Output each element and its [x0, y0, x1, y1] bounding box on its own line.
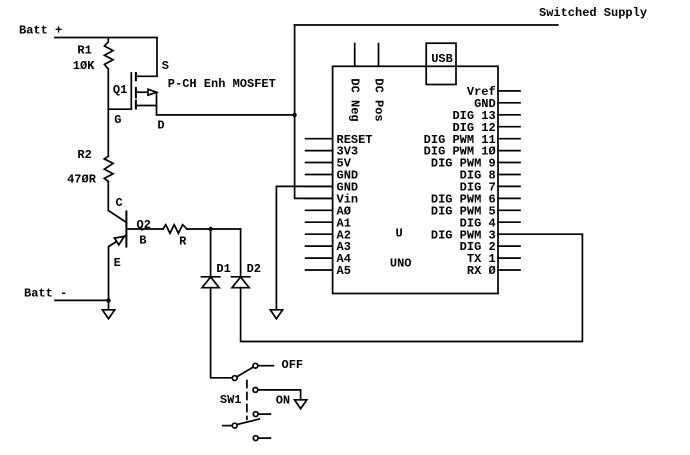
wire R1 bottom to R2 top — [107, 69, 109, 156]
switch SW1 pole2 common circle — [232, 423, 237, 428]
wire switched supply riser — [295, 25, 333, 198]
wire OFF stub — [258, 365, 274, 367]
svg-text:D1: D1 — [216, 262, 230, 276]
pin stub A2 (left) — [306, 233, 333, 235]
svg-text:RX Ø: RX Ø — [467, 264, 496, 278]
transistor Q1 bottom bar connect — [136, 105, 157, 107]
switch SW1 pole1 lever — [237, 367, 253, 377]
resistor R1 — [104, 38, 113, 70]
pin stub 5V (left) — [306, 162, 333, 164]
switch SW1 pole2 common stub — [223, 425, 233, 427]
transistor Q1 body arrow head — [148, 89, 157, 95]
pin stub DIG 12 (right) — [498, 126, 520, 128]
pin stub DIG PWM 11 (right) — [498, 138, 520, 140]
svg-text:R2: R2 — [77, 148, 91, 162]
ground symbol board GND — [270, 310, 282, 319]
pin stub RESET (left) — [306, 138, 333, 140]
arduino board outline U — [333, 66, 498, 293]
svg-text:A5: A5 — [337, 264, 351, 278]
pin stub DIG 13 (right) — [498, 114, 520, 116]
wire Batt+ horizontal — [55, 37, 157, 39]
wire ground stem Batt- — [108, 300, 110, 309]
switch SW1 pole2 throw2 circle — [253, 436, 258, 441]
diode D1 anode lead — [210, 229, 212, 277]
diode D2 cathode bar — [232, 276, 250, 278]
pin stub A3 (left) — [306, 245, 333, 247]
diode D2 anode lead — [240, 229, 242, 277]
svg-text:Batt +: Batt + — [19, 24, 62, 38]
transistor Q2 bar — [125, 212, 127, 247]
transistor Q1 gate plate — [130, 73, 132, 109]
pin stub DIG 7 (right) — [498, 185, 520, 187]
USB connector box — [426, 43, 456, 84]
wire pole2 throw1 stub — [258, 413, 270, 415]
svg-text:SW1: SW1 — [220, 393, 242, 407]
pin stub DIG PWM 5 (right) — [498, 209, 520, 211]
node R/D1 junction — [208, 227, 212, 231]
svg-text:USB: USB — [431, 52, 453, 66]
pin stub A5 (left) — [306, 269, 333, 271]
pin stub GND (left) — [306, 174, 333, 176]
diode D1 cathode bar — [202, 276, 220, 278]
pin stub A4 (left) — [306, 257, 333, 259]
pin DC Neg stub — [354, 44, 356, 67]
svg-text:Q2: Q2 — [137, 218, 151, 232]
svg-text:D2: D2 — [247, 262, 261, 276]
svg-text:1ØK: 1ØK — [73, 59, 95, 73]
switch SW1 gang dashed link — [246, 381, 248, 420]
resistor R — [163, 225, 187, 234]
ground symbol Batt- — [102, 310, 114, 319]
pin stub Vin (left) — [306, 197, 333, 199]
wire R2 bottom to collector — [107, 181, 109, 210]
svg-text:S: S — [162, 59, 169, 73]
transistor Q1 channel bar top — [135, 73, 137, 80]
svg-text:47ØR: 47ØR — [67, 173, 97, 187]
pin stub GND (left) — [306, 185, 333, 187]
svg-text:Switched Supply: Switched Supply — [539, 6, 647, 20]
wire GND pin to ground — [276, 186, 332, 309]
wire Batt- horizontal — [55, 299, 109, 301]
pin stub RX 0 (right) — [498, 269, 520, 271]
transistor Q2 emitter diagonal — [109, 235, 127, 300]
wire drain vertical — [156, 92, 158, 115]
diode D2 triangle — [232, 277, 249, 288]
ground symbol ON — [295, 400, 307, 409]
wire D2 to DIG PWM 3 — [241, 234, 583, 341]
pin stub DIG PWM 9 (right) — [498, 162, 520, 164]
switch SW1 pole2 throw1 circle — [253, 412, 258, 417]
diode D1 triangle — [202, 277, 219, 288]
svg-text:D: D — [157, 118, 164, 132]
switch SW1 OFF throw circle — [253, 363, 258, 368]
pin stub DIG 2 (right) — [498, 245, 520, 247]
pin stub A1 (left) — [306, 221, 333, 223]
svg-text:U: U — [396, 227, 403, 241]
pin stub DIG PWM 6 (right) — [498, 197, 520, 199]
pin stub DIG PWM 10 (right) — [498, 150, 520, 152]
transistor Q1 channel bar bottom — [135, 101, 137, 109]
svg-text:Batt -: Batt - — [24, 287, 67, 301]
transistor Q1 channel bar middle — [135, 88, 137, 97]
svg-text:ON: ON — [276, 394, 290, 408]
transistor Q1 body arrow line — [136, 91, 148, 93]
pin stub DIG 8 (right) — [498, 174, 520, 176]
wire drain to node — [157, 114, 295, 116]
svg-text:E: E — [114, 256, 121, 270]
pin stub 3V3 (left) — [306, 150, 333, 152]
svg-text:DC Neg: DC Neg — [348, 78, 362, 121]
wire source vertical to S — [136, 38, 157, 77]
node Batt- junction — [106, 298, 110, 302]
svg-text:G: G — [114, 113, 121, 127]
pin stub DIG 4 (right) — [498, 221, 520, 223]
resistor R2 — [104, 156, 113, 181]
svg-text:Q1: Q1 — [113, 83, 127, 97]
svg-text:P-CH Enh MOSFET: P-CH Enh MOSFET — [168, 77, 276, 91]
switch SW1 pole1 common circle — [232, 376, 237, 381]
switch SW1 ON throw circle — [253, 388, 258, 393]
transistor Q2 collector diagonal — [109, 211, 127, 223]
svg-text:C: C — [116, 196, 123, 210]
svg-text:R: R — [179, 234, 187, 248]
svg-text:UNO: UNO — [390, 256, 412, 270]
wire switched supply top — [295, 24, 558, 26]
pin stub Vref (right) — [498, 90, 520, 92]
wire R to D2 — [187, 228, 241, 230]
pin stub A0 (left) — [306, 209, 333, 211]
svg-text:B: B — [139, 233, 146, 247]
node drain junction — [292, 113, 296, 117]
pin stub GND (right) — [498, 102, 520, 104]
svg-text:OFF: OFF — [282, 358, 304, 372]
wire gate branch — [108, 108, 131, 110]
svg-text:R1: R1 — [77, 44, 91, 58]
svg-text:DC Pos: DC Pos — [371, 78, 385, 121]
pin DC Pos stub — [378, 44, 380, 67]
diode D1 bottom lead to switch — [211, 288, 233, 378]
wire base — [126, 228, 163, 230]
transistor Q2 emitter arrow — [114, 237, 124, 245]
pin stub TX 1 (right) — [498, 257, 520, 259]
wire pole2 throw2 stub — [258, 437, 270, 439]
wire ON throw to ground — [258, 390, 301, 400]
switch SW1 pole2 lever — [237, 419, 259, 425]
